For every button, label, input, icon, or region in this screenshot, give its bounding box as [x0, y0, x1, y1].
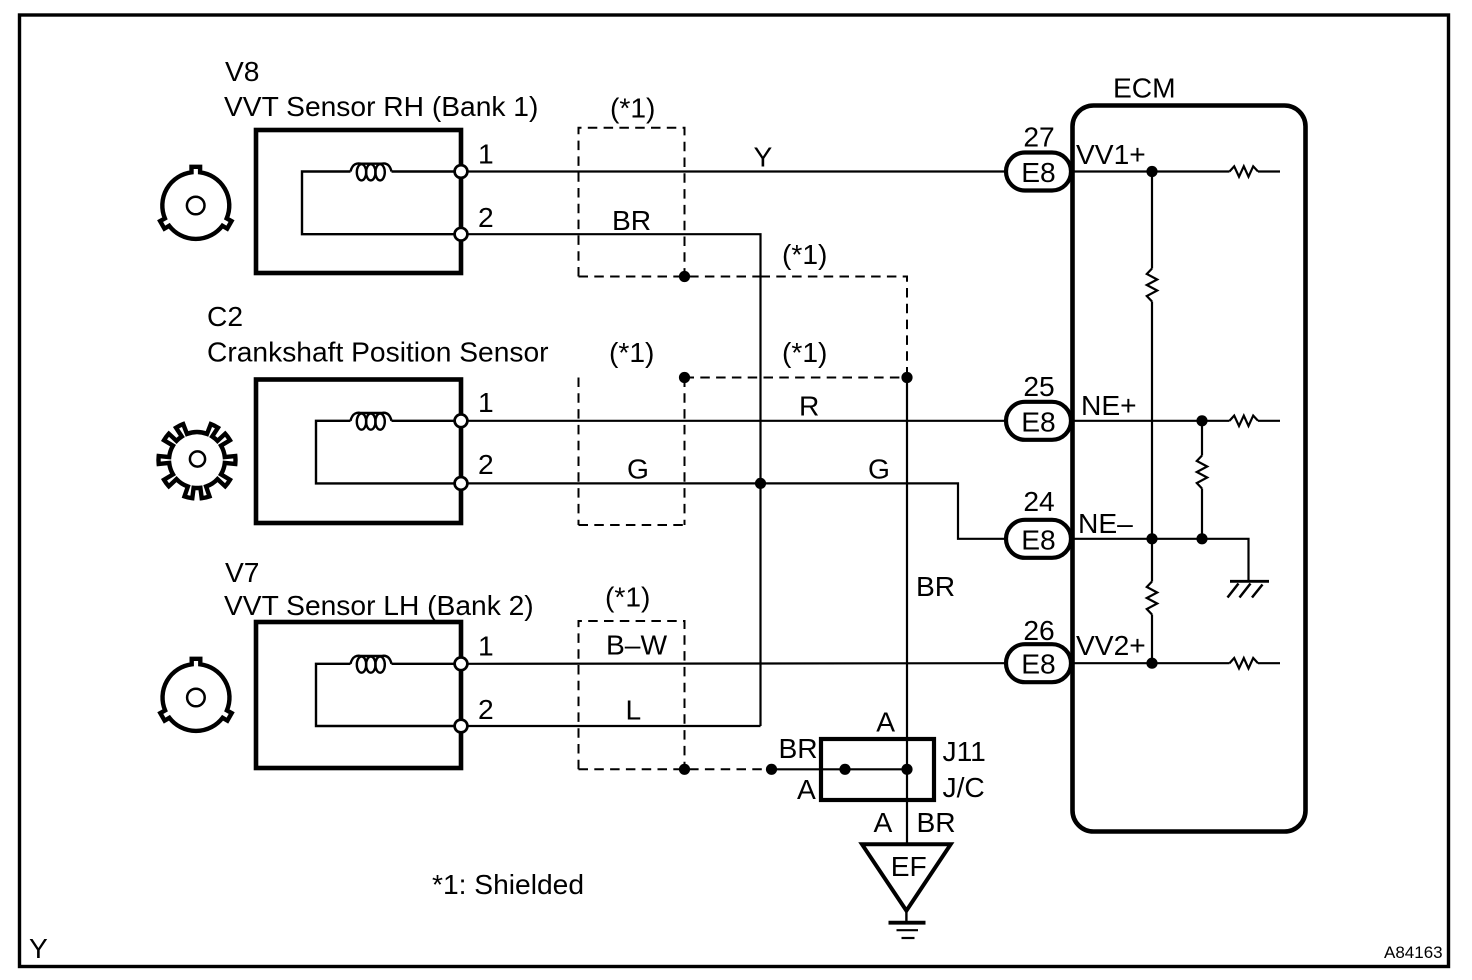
junction dot on shield B left: [679, 372, 690, 383]
junction node: BR/G common: [755, 478, 766, 489]
VVT sensor RH icon: [160, 167, 231, 239]
svg-text:VVT Sensor RH (Bank 1): VVT Sensor RH (Bank 1): [224, 90, 538, 122]
pull-up resistor VV1+ row: [1230, 166, 1259, 176]
svg-text:NE+: NE+: [1081, 389, 1137, 421]
wire L: V7 pin2 to common node: [468, 725, 761, 727]
VVT sensor RH (V8) body: [256, 130, 461, 273]
svg-text:BR: BR: [916, 570, 955, 602]
svg-text:(*1): (*1): [609, 336, 654, 368]
svg-text:1: 1: [478, 386, 494, 418]
resistor between NE+ and NE-: [1197, 456, 1207, 489]
svg-text:C2: C2: [207, 300, 243, 332]
svg-text:A: A: [797, 773, 816, 805]
shield box (*1) around V7 wires: [579, 621, 772, 769]
junction dot NE- row left: [1146, 533, 1157, 544]
svg-text:(*1): (*1): [782, 238, 827, 270]
junction dot VV1+ row: [1146, 166, 1157, 177]
svg-text:V8: V8: [225, 55, 259, 87]
ground triangle EF: [862, 844, 951, 910]
svg-text:Y: Y: [754, 141, 773, 173]
VVT sensor RH (V8) pickup coil: [351, 163, 392, 180]
VVT sensor LH (V7) pickup coil: [351, 656, 392, 673]
chassis ground inside ECM: [1230, 580, 1269, 583]
junction dot NE+ row: [1196, 415, 1207, 426]
J/C inlet wire: [772, 768, 908, 770]
ECM internal vertical NE+ to NE-: [1201, 421, 1203, 456]
shield box (*1) upper-right segment: [685, 277, 908, 378]
svg-text:Y: Y: [29, 932, 48, 964]
svg-text:2: 2: [478, 448, 494, 480]
svg-text:R: R: [799, 390, 819, 422]
shield drain wire BR: down to EF ground: [906, 378, 908, 845]
svg-text:E8: E8: [1021, 405, 1055, 437]
svg-text:1: 1: [478, 630, 494, 662]
svg-text:ECM: ECM: [1113, 72, 1176, 104]
VVT sensor LH (V7) pin 2 terminal: [455, 720, 468, 733]
resistor between NE- and VV2+: [1147, 582, 1157, 615]
svg-text:A: A: [876, 705, 895, 737]
svg-text:A84163: A84163: [1384, 943, 1443, 962]
wire Y: V8 pin1 to E8-27: [468, 170, 1007, 172]
connector E8 oval (pin 27): [1006, 153, 1071, 191]
wire BR: V8 pin2 right then down to common node: [468, 234, 761, 726]
svg-text:BR: BR: [779, 732, 818, 764]
svg-text:(*1): (*1): [605, 581, 650, 613]
VVT sensor LH (V7) body: [256, 622, 461, 768]
ECM internal vertical NE- to VV2+: [1151, 539, 1153, 582]
VVT sensor RH (V8) pin 2 terminal: [455, 228, 468, 241]
junction connector J11 box: [821, 739, 934, 800]
junction dot VV2+ row: [1146, 658, 1157, 669]
earth ground symbol below EF: [905, 909, 907, 921]
pull-up resistor VV2+ row: [1230, 658, 1259, 668]
wire G: C2 pin2 right, jog down to E8-24: [468, 483, 1007, 538]
VVT sensor LH icon: [160, 659, 231, 731]
svg-text:J/C: J/C: [943, 771, 985, 803]
shield box (*1) around V8 wires: [579, 128, 761, 277]
svg-text:NE–: NE–: [1078, 507, 1133, 539]
connector E8 oval (pin 26): [1006, 644, 1071, 682]
svg-text:G: G: [627, 452, 649, 484]
svg-text:B–W: B–W: [606, 629, 667, 661]
junction dot on shield D corner: [679, 764, 690, 775]
wire B-W: V7 pin1 to E8-26: [468, 662, 1007, 665]
J11 internal dot left: [839, 764, 850, 775]
ECM internal wire NE- row to chassis ground: [1072, 539, 1249, 580]
svg-text:27: 27: [1023, 121, 1054, 153]
shield box (*1) around C2 wires: [579, 378, 685, 526]
svg-text:VVT Sensor LH (Bank 2): VVT Sensor LH (Bank 2): [224, 589, 534, 621]
svg-text:2: 2: [478, 693, 494, 725]
VVT sensor LH (V7) internal winding wire: [316, 664, 461, 726]
svg-text:G: G: [868, 452, 890, 484]
crankshaft position sensor (C2) body: [256, 380, 461, 524]
svg-text:A: A: [874, 806, 893, 838]
VVT sensor RH (V8) pin 1 terminal: [455, 165, 468, 178]
crankshaft position sensor (C2) internal winding wire: [316, 421, 461, 484]
svg-text:*1: Shielded: *1: Shielded: [432, 868, 584, 900]
svg-text:E8: E8: [1021, 523, 1055, 555]
crankshaft position sensor rotor icon: [158, 424, 235, 498]
svg-text:26: 26: [1023, 614, 1054, 646]
junction dot NE- row right: [1196, 533, 1207, 544]
connector E8 oval (pin 25): [1006, 402, 1071, 440]
svg-text:(*1): (*1): [782, 336, 827, 368]
svg-text:(*1): (*1): [610, 92, 655, 124]
pull-up resistor NE+ row: [1230, 416, 1259, 426]
J11 internal dot right: [901, 764, 912, 775]
crankshaft position sensor (C2) pickup coil: [351, 413, 392, 430]
ECM internal wire NE+ row: [1072, 420, 1230, 422]
ECM internal vertical VV1+ to NE-: [1151, 172, 1153, 269]
crankshaft position sensor (C2) pin 1 terminal: [455, 414, 468, 427]
svg-text:BR: BR: [612, 204, 651, 236]
ECM internal wire VV2+ row: [1072, 662, 1230, 664]
svg-text:EF: EF: [891, 850, 927, 882]
svg-text:Crankshaft Position Sensor: Crankshaft Position Sensor: [207, 336, 549, 368]
svg-text:E8: E8: [1021, 648, 1055, 680]
svg-text:25: 25: [1023, 370, 1054, 402]
svg-text:2: 2: [478, 201, 494, 233]
junction dot on shield A: [679, 271, 690, 282]
svg-text:VV2+: VV2+: [1076, 629, 1146, 661]
VVT sensor RH (V8) internal winding wire: [302, 172, 461, 235]
crankshaft position sensor (C2) pin 2 terminal: [455, 477, 468, 490]
junction dot on shield B right (drain tap): [901, 372, 912, 383]
connector E8 oval (pin 24): [1006, 520, 1071, 558]
svg-text:1: 1: [478, 138, 494, 170]
svg-text:J11: J11: [943, 735, 986, 767]
wire R: C2 pin1 to E8-25: [468, 420, 1007, 422]
svg-text:24: 24: [1023, 485, 1054, 517]
ECM block: [1073, 106, 1306, 832]
svg-text:V7: V7: [225, 556, 259, 588]
svg-text:E8: E8: [1021, 156, 1055, 188]
svg-text:L: L: [626, 693, 642, 725]
svg-text:BR: BR: [917, 806, 956, 838]
svg-text:VV1+: VV1+: [1076, 138, 1146, 170]
ECM internal wire VV1+ row: [1072, 170, 1230, 172]
junction dot at J/C inlet: [766, 764, 777, 775]
VVT sensor LH (V7) pin 1 terminal: [455, 657, 468, 670]
resistor between VV1+ and NE-: [1147, 269, 1157, 302]
